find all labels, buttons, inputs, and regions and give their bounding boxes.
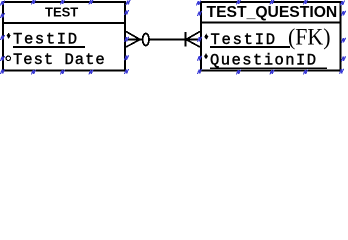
svg-text:TEST_QUESTION: TEST_QUESTION bbox=[207, 4, 338, 21]
one bar at TEST_QUESTION side bbox=[185, 32, 187, 47]
entity TEST box border bbox=[3, 2, 125, 71]
selection handles around TEST_QUESTION box bbox=[197, 0, 346, 75]
key marker diamond for TestID (FK) bbox=[204, 34, 208, 40]
entity TEST_QUESTION box border bbox=[201, 2, 341, 71]
svg-text:(FK): (FK) bbox=[288, 24, 331, 49]
entity TEST_QUESTION header divider bbox=[200, 22, 341, 24]
crow's foot at TEST_QUESTION side bbox=[186, 32, 200, 48]
entity TEST header divider bbox=[2, 22, 126, 24]
optionality circle at TEST side bbox=[143, 34, 149, 46]
relationship line bbox=[126, 38, 200, 40]
selection handles around TEST box bbox=[1, 0, 131, 75]
svg-text:Test Date: Test Date bbox=[13, 51, 106, 69]
underline of TestID bbox=[13, 46, 85, 48]
key marker diamond for TestID bbox=[7, 33, 11, 39]
svg-text:TestID: TestID bbox=[13, 30, 79, 48]
crow's foot at TEST side bbox=[126, 32, 140, 48]
underline of TestID (FK) bbox=[210, 46, 290, 48]
optional marker circle for Test Date bbox=[6, 56, 10, 60]
key marker diamond for QuestionID bbox=[204, 53, 208, 59]
underline of QuestionID bbox=[210, 67, 327, 69]
svg-text:QuestionID: QuestionID bbox=[210, 52, 318, 70]
svg-text:TEST: TEST bbox=[45, 5, 78, 20]
